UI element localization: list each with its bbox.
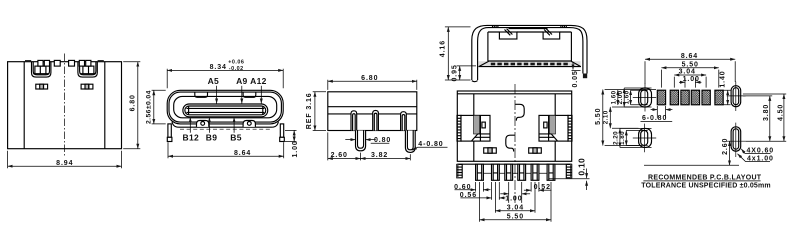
pcb dim 4.50 bbox=[743, 94, 786, 141]
view1 top weld mark right bbox=[98, 60, 104, 62]
view4 shell arch outer bbox=[472, 25, 587, 81]
view4 weld ticks left bbox=[493, 25, 498, 27]
pin label B12 with leader bbox=[183, 117, 200, 142]
view3 dim 0.80 bbox=[345, 137, 391, 144]
pcb slot pad top-right bbox=[727, 82, 746, 111]
view5 center key bottom bbox=[506, 135, 515, 151]
svg-text:6-0.80: 6-0.80 bbox=[642, 115, 667, 122]
view3 through-hole leg right bbox=[405, 131, 415, 153]
svg-text:+0.06: +0.06 bbox=[228, 59, 244, 65]
pcb dim 1.60 inner bbox=[623, 90, 647, 105]
pcb dim 1.60 bbox=[611, 90, 618, 105]
pcb dim 1.40 bbox=[719, 70, 730, 104]
view5 dim 3.04 bbox=[495, 182, 535, 213]
svg-text:6.80: 6.80 bbox=[361, 75, 378, 82]
view5 smt pin 2 bbox=[492, 164, 500, 180]
svg-text:6.80: 6.80 bbox=[130, 94, 137, 111]
view1 centerline bbox=[63, 54, 65, 157]
view4 lance slash left bbox=[505, 29, 513, 36]
svg-text:B9: B9 bbox=[206, 132, 217, 142]
svg-text:1.00: 1.00 bbox=[505, 196, 522, 203]
view5 dim 1.00 bbox=[500, 182, 530, 203]
pcb dim 1.80 bbox=[619, 130, 648, 145]
pcb dim 5.50 top bbox=[661, 61, 718, 87]
view3 dim 2.60 bbox=[328, 132, 361, 160]
view2 dim 1.00 bbox=[285, 130, 299, 157]
pcb callout 6-0.80 bbox=[641, 106, 673, 122]
view2 tongue bbox=[183, 104, 268, 117]
svg-text:REF 3.16: REF 3.16 bbox=[306, 92, 313, 129]
view4 insulator body bbox=[488, 29, 572, 61]
pin label B9 with leader bbox=[206, 117, 217, 142]
view5 dim 0.10 bbox=[549, 158, 590, 190]
svg-text:0.52: 0.52 bbox=[534, 184, 551, 191]
svg-text:B12: B12 bbox=[183, 132, 200, 142]
view5 bottom-view body bbox=[457, 91, 571, 173]
view4 latch window right bbox=[543, 32, 560, 39]
view2 shell leg left bbox=[167, 124, 172, 142]
view5 corner comb right bbox=[566, 164, 571, 177]
svg-text:8.64: 8.64 bbox=[681, 53, 698, 60]
svg-text:4.50: 4.50 bbox=[777, 104, 784, 121]
view5 right comb contacts bbox=[568, 115, 572, 141]
view1 right pocket contact block bbox=[83, 66, 94, 74]
pcb dim 2.10 bbox=[602, 107, 638, 128]
pcb title text bbox=[641, 174, 771, 189]
view5 left comb contacts bbox=[457, 115, 461, 141]
view4 dim 0.95 bbox=[452, 64, 476, 81]
view4 right leg solder tip bbox=[583, 74, 587, 79]
svg-text:1.80: 1.80 bbox=[619, 131, 626, 145]
view2 top notch right bbox=[243, 92, 256, 97]
svg-text:0.80: 0.80 bbox=[374, 137, 391, 144]
view5 smt pin 6 bbox=[547, 164, 555, 180]
view5 left leg block bbox=[461, 115, 490, 141]
view1 dim 8.94 bbox=[8, 151, 122, 169]
view3 dim REF 3.16 bbox=[306, 92, 326, 131]
svg-text:3.82: 3.82 bbox=[371, 152, 388, 159]
svg-text:1.00: 1.00 bbox=[683, 76, 700, 83]
pcb dim 5.50 left bbox=[595, 90, 656, 146]
svg-text:1.40: 1.40 bbox=[719, 70, 726, 87]
view2 bottom skirt bbox=[172, 122, 278, 130]
svg-text:0.56: 0.56 bbox=[460, 192, 477, 199]
view4 dim 4.16 bbox=[440, 27, 471, 80]
view5 dim 0.60 bbox=[454, 182, 490, 192]
view5 corner comb left bbox=[457, 164, 462, 177]
svg-text:2.56±0.04: 2.56±0.04 bbox=[146, 90, 153, 124]
pcb dim 1.00 bbox=[679, 76, 701, 88]
view1 latch window right bbox=[81, 84, 93, 89]
svg-text:A12: A12 bbox=[250, 76, 267, 86]
view1 top tab A right bbox=[79, 60, 91, 66]
view5 dim 0.56 bbox=[460, 182, 506, 200]
pin label A9 with leader bbox=[236, 76, 247, 104]
view2 bottom dimple left bbox=[197, 121, 209, 127]
pcb pad row (6 x 0.80) bbox=[657, 90, 723, 105]
view5 right leg block bbox=[539, 115, 568, 141]
svg-text:A5: A5 bbox=[208, 76, 219, 86]
view1 latch window left bbox=[36, 84, 48, 89]
pin label B5 with leader bbox=[230, 117, 241, 142]
view1 top tab B left bbox=[54, 60, 60, 66]
svg-text:-0.02: -0.02 bbox=[229, 66, 244, 72]
view5 smt pin 3 bbox=[505, 164, 513, 180]
svg-text:1.00: 1.00 bbox=[292, 140, 299, 157]
view3 dim 6.80 bbox=[328, 75, 417, 90]
view4 latch window left bbox=[499, 32, 517, 39]
view3 side-view body bbox=[328, 92, 417, 131]
svg-text:3.04: 3.04 bbox=[507, 205, 524, 212]
svg-text:B5: B5 bbox=[230, 132, 241, 142]
svg-text:8.34: 8.34 bbox=[210, 64, 227, 71]
pcb dim 8.64 bbox=[645, 53, 735, 84]
view4 dim 0.05 bbox=[572, 63, 581, 88]
pcb dim 3.04 bbox=[674, 69, 706, 88]
svg-text:0.95: 0.95 bbox=[452, 64, 459, 81]
view4 lance slash right bbox=[544, 29, 552, 36]
pin label A5 with leader bbox=[208, 76, 219, 104]
view1 top tab B right bbox=[69, 60, 75, 66]
pcb dim 2.00 bbox=[617, 88, 652, 107]
view5 latch window right bbox=[529, 148, 542, 153]
pcb dim 2.60 bbox=[644, 138, 739, 166]
svg-text:4.16: 4.16 bbox=[440, 40, 447, 57]
view4 contact band bbox=[479, 61, 582, 67]
svg-text:8.94: 8.94 bbox=[56, 160, 73, 167]
svg-text:RECOMMENDEB P.C.B.LAYOUT: RECOMMENDEB P.C.B.LAYOUT bbox=[648, 174, 762, 181]
view1 front-view housing body bbox=[8, 62, 122, 149]
svg-text:2.10: 2.10 bbox=[602, 110, 609, 124]
svg-text:2.60: 2.60 bbox=[331, 152, 348, 159]
view4 contact dashes bbox=[491, 63, 568, 66]
view2 dim 8.64 bbox=[168, 142, 284, 158]
view2 cavity contour bbox=[174, 96, 277, 117]
pcb dim 2.20 bbox=[612, 128, 651, 147]
view2 top notch left bbox=[195, 92, 208, 97]
view2 shell leg right bbox=[280, 124, 285, 142]
pcb slot pad top-left bbox=[633, 84, 656, 112]
svg-text:5.50: 5.50 bbox=[507, 214, 524, 221]
view1 left pocket cutout bbox=[32, 62, 51, 77]
view2 dim 2.56±0.04 bbox=[146, 90, 166, 124]
view5 smt pin 4 bbox=[518, 164, 526, 180]
svg-text:3.80: 3.80 bbox=[763, 104, 770, 121]
pcb dim 3.80 bbox=[743, 96, 772, 141]
svg-text:8.64: 8.64 bbox=[234, 150, 251, 157]
svg-text:0.10: 0.10 bbox=[576, 158, 586, 176]
view5 latch window left bbox=[484, 148, 497, 153]
view3 post 3 bbox=[401, 112, 407, 131]
view5 dim 5.50 bbox=[480, 182, 552, 222]
svg-text:A9: A9 bbox=[236, 76, 247, 86]
pcb slot pad bottom-right bbox=[727, 123, 746, 157]
pcb callout 4x1.00 bbox=[738, 154, 774, 163]
svg-text:1.60: 1.60 bbox=[623, 90, 630, 104]
view1 top weld mark left bbox=[25, 60, 31, 62]
view5 smt pin 5 bbox=[531, 164, 539, 180]
view5 center key top bbox=[515, 104, 524, 120]
view5 centerline bbox=[514, 84, 516, 203]
pcb slot pad bottom-left bbox=[633, 124, 656, 153]
svg-text:0.60: 0.60 bbox=[454, 184, 471, 191]
view3 post 1 bbox=[351, 111, 357, 131]
svg-text:5.50: 5.50 bbox=[595, 108, 602, 125]
svg-text:2.60: 2.60 bbox=[722, 138, 729, 155]
view2 shell outer contour bbox=[167, 90, 283, 124]
view2 bottom dimple right bbox=[243, 121, 255, 127]
view3 callout 4-0.80 bbox=[412, 141, 448, 150]
view3 through-hole leg left bbox=[356, 131, 366, 151]
pin label A12 with leader bbox=[250, 76, 267, 104]
svg-text:0.05: 0.05 bbox=[572, 70, 579, 87]
svg-text:TOLERANCE UNSPECIFIED ±0.05mm: TOLERANCE UNSPECIFIED ±0.05mm bbox=[641, 182, 771, 189]
svg-text:5.50: 5.50 bbox=[682, 61, 699, 68]
view1 right pocket cutout bbox=[78, 62, 97, 77]
pcb callout 4X0.60 bbox=[741, 147, 774, 154]
view3 post 2 bbox=[373, 110, 379, 130]
view2 dim 8.34 with tolerance bbox=[167, 59, 283, 88]
view4 weld ticks right bbox=[561, 25, 566, 27]
view1 dim 6.80 bbox=[123, 62, 140, 149]
view5 dim 0.52 bbox=[524, 182, 552, 192]
view5 smt pin 1 bbox=[476, 164, 484, 180]
view3 dim 3.82 bbox=[361, 152, 411, 161]
view1 left pocket contact block bbox=[35, 66, 46, 74]
svg-text:3.04: 3.04 bbox=[679, 69, 696, 76]
view1 top tab A left bbox=[38, 60, 50, 66]
